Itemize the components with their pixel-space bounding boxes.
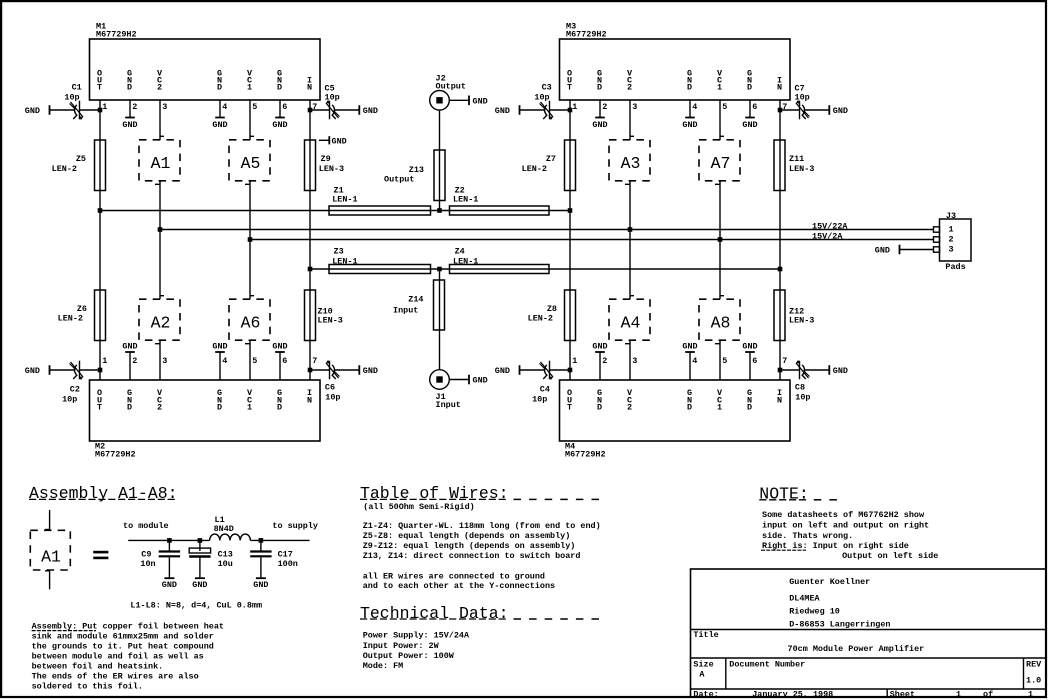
svg-text:GND: GND	[272, 342, 287, 352]
svg-text:Title: Title	[693, 630, 718, 640]
svg-text:T: T	[567, 403, 572, 413]
svg-text:10p: 10p	[325, 393, 340, 403]
svg-text:4: 4	[222, 102, 227, 112]
svg-text:GND: GND	[682, 342, 697, 352]
svg-text:Size: Size	[693, 660, 713, 670]
svg-text:Z4: Z4	[455, 247, 465, 257]
svg-text:L1-L8: N=8, d=4, CuL 0.8mm: L1-L8: N=8, d=4, CuL 0.8mm	[130, 600, 262, 610]
svg-text:Z14: Z14	[408, 295, 423, 305]
svg-text:GND: GND	[473, 96, 488, 106]
svg-text:C6: C6	[325, 382, 335, 392]
svg-text:Z1-Z4: Quarter-WL. 118mm long: Z1-Z4: Quarter-WL. 118mm long (from end …	[363, 521, 601, 531]
svg-text:LEN-1: LEN-1	[453, 257, 478, 267]
svg-text:GND: GND	[833, 366, 848, 376]
svg-text:N: N	[307, 83, 312, 93]
svg-text:REV: REV	[1026, 660, 1042, 670]
svg-text:1: 1	[956, 689, 961, 699]
svg-text:5: 5	[252, 102, 257, 112]
svg-text:D: D	[217, 403, 222, 413]
svg-text:LEN-1: LEN-1	[332, 195, 357, 205]
svg-text:GND: GND	[495, 366, 510, 376]
svg-text:January 25, 1998: January 25, 1998	[752, 689, 833, 699]
svg-text:side. Thats wrong.: side. Thats wrong.	[762, 531, 853, 541]
svg-text:C3: C3	[542, 83, 552, 93]
svg-text:Output on left side: Output on left side	[842, 551, 938, 561]
svg-text:Z11: Z11	[789, 154, 804, 164]
svg-text:D-86853 Langerringen: D-86853 Langerringen	[789, 619, 890, 629]
svg-text:between module and foil as wel: between module and foil as well as	[32, 652, 204, 662]
svg-text:7: 7	[782, 356, 787, 366]
svg-text:Z9: Z9	[321, 154, 331, 164]
svg-text:Z5: Z5	[76, 154, 86, 164]
svg-text:C8: C8	[795, 382, 805, 392]
svg-text:10p: 10p	[534, 93, 549, 103]
svg-text:2: 2	[157, 403, 162, 413]
svg-text:GND: GND	[272, 120, 287, 130]
svg-text:A6: A6	[241, 313, 261, 332]
svg-text:DL4MEA: DL4MEA	[789, 594, 820, 604]
svg-text:1: 1	[717, 403, 722, 413]
svg-text:10p: 10p	[795, 93, 810, 103]
svg-text:Pads: Pads	[945, 262, 965, 272]
svg-text:T: T	[97, 83, 102, 93]
svg-text:Table of Wires:: Table of Wires:	[360, 484, 509, 503]
svg-text:to supply: to supply	[272, 521, 318, 531]
svg-text:1: 1	[1028, 689, 1033, 699]
svg-text:10p: 10p	[325, 93, 340, 103]
svg-text:2: 2	[132, 102, 137, 112]
svg-text:sink and module 61mmx25mm and: sink and module 61mmx25mm and solder	[32, 632, 214, 642]
svg-text:GND: GND	[212, 120, 227, 130]
svg-text:GND: GND	[833, 106, 848, 116]
svg-text:C4: C4	[540, 385, 550, 395]
svg-text:10p: 10p	[532, 395, 547, 405]
svg-text:LEN-3: LEN-3	[789, 164, 814, 174]
svg-text:GND: GND	[122, 342, 137, 352]
svg-text:C2: C2	[70, 385, 80, 395]
svg-text:A4: A4	[621, 313, 641, 332]
svg-text:1: 1	[572, 102, 577, 112]
svg-text:1: 1	[572, 356, 577, 366]
svg-text:Some datasheets of M67762H2 sh: Some datasheets of M67762H2 show	[762, 510, 925, 520]
svg-text:70cm Module Power Amplifier: 70cm Module Power Amplifier	[788, 644, 925, 654]
svg-text:Output Power: 100W: Output Power: 100W	[363, 651, 455, 661]
svg-text:Assembly A1-A8:: Assembly A1-A8:	[29, 484, 178, 503]
svg-text:Date:: Date:	[693, 689, 718, 699]
svg-text:D: D	[217, 83, 222, 93]
svg-text:GND: GND	[592, 342, 607, 352]
svg-text:of: of	[983, 689, 993, 699]
svg-text:3: 3	[949, 245, 954, 255]
svg-text:3: 3	[632, 102, 637, 112]
svg-text:LEN-3: LEN-3	[789, 316, 814, 326]
svg-text:GND: GND	[363, 106, 378, 116]
svg-text:4: 4	[222, 356, 227, 366]
svg-text:A2: A2	[151, 313, 171, 332]
svg-text:8N4D: 8N4D	[214, 524, 234, 534]
svg-text:D: D	[277, 403, 282, 413]
svg-text:GND: GND	[473, 376, 488, 386]
svg-text:GND: GND	[192, 580, 207, 590]
svg-text:NOTE:: NOTE:	[759, 485, 809, 504]
svg-text:10u: 10u	[218, 559, 233, 569]
svg-text:Riedweg 10: Riedweg 10	[789, 607, 840, 617]
svg-text:input on left and output on ri: input on left and output on right	[762, 520, 929, 530]
svg-text:GND: GND	[122, 120, 137, 130]
svg-text:and to each other at the Y-con: and to each other at the Y-connections	[363, 581, 555, 591]
svg-text:GND: GND	[363, 366, 378, 376]
svg-text:10p: 10p	[62, 395, 77, 405]
svg-text:D: D	[597, 403, 602, 413]
svg-text:Z5-Z8: equal length (depends o: Z5-Z8: equal length (depends on assembly…	[363, 531, 571, 541]
svg-text:1: 1	[949, 225, 954, 235]
svg-text:10p: 10p	[64, 93, 79, 103]
svg-text:D: D	[747, 403, 752, 413]
svg-text:D: D	[687, 83, 692, 93]
svg-text:Power Supply: 15V/24A: Power Supply: 15V/24A	[363, 631, 470, 641]
svg-text:5: 5	[252, 356, 257, 366]
svg-text:GND: GND	[742, 120, 757, 130]
svg-text:A8: A8	[711, 313, 731, 332]
svg-text:2: 2	[627, 403, 632, 413]
svg-text:(all 50Ohm Semi-Rigid): (all 50Ohm Semi-Rigid)	[363, 502, 474, 512]
svg-text:Sheet: Sheet	[890, 689, 915, 699]
svg-text:between foil and heatsink.: between foil and heatsink.	[32, 662, 164, 672]
svg-text:GND: GND	[495, 106, 510, 116]
svg-text:A7: A7	[711, 154, 731, 173]
svg-text:1: 1	[247, 83, 252, 93]
svg-text:all ER wires are connected to: all ER wires are connected to ground	[363, 571, 545, 581]
svg-text:1: 1	[102, 102, 107, 112]
svg-text:Z13, Z14: direct connection to: Z13, Z14: direct connection to switch bo…	[363, 551, 581, 561]
svg-text:GND: GND	[875, 246, 890, 256]
svg-text:soldered to this foil.: soldered to this foil.	[32, 681, 143, 691]
svg-text:10p: 10p	[795, 393, 810, 403]
svg-text:1: 1	[247, 403, 252, 413]
svg-text:N: N	[777, 83, 782, 93]
svg-text:GND: GND	[332, 136, 347, 146]
svg-text:D: D	[687, 403, 692, 413]
svg-text:T: T	[97, 403, 102, 413]
svg-text:GND: GND	[682, 120, 697, 130]
svg-text:D: D	[277, 83, 282, 93]
svg-text:2: 2	[627, 83, 632, 93]
svg-text:5: 5	[722, 102, 727, 112]
svg-text:GND: GND	[25, 366, 40, 376]
svg-text:D: D	[747, 83, 752, 93]
svg-text:to module: to module	[123, 521, 169, 531]
svg-text:6: 6	[282, 102, 287, 112]
svg-text:D: D	[597, 83, 602, 93]
svg-text:6: 6	[752, 356, 757, 366]
svg-text:Input: Input	[393, 305, 418, 315]
svg-text:2: 2	[602, 356, 607, 366]
svg-text:GND: GND	[162, 580, 177, 590]
svg-text:6: 6	[752, 102, 757, 112]
svg-text:GND: GND	[592, 120, 607, 130]
svg-text:100n: 100n	[278, 559, 298, 569]
svg-text:LEN-3: LEN-3	[318, 316, 343, 326]
svg-text:Input: Input	[436, 400, 461, 410]
svg-text:15V/22A: 15V/22A	[812, 222, 848, 232]
svg-text:T: T	[567, 83, 572, 93]
svg-text:Document Number: Document Number	[729, 660, 805, 670]
svg-text:A1: A1	[41, 547, 61, 566]
svg-text:15V/2A: 15V/2A	[812, 232, 843, 242]
svg-text:LEN-3: LEN-3	[319, 164, 344, 174]
svg-text:GND: GND	[253, 580, 268, 590]
svg-text:2: 2	[157, 83, 162, 93]
svg-text:M67729H2: M67729H2	[96, 29, 137, 39]
svg-text:M67729H2: M67729H2	[95, 450, 136, 460]
svg-text:Guenter Koellner: Guenter Koellner	[789, 577, 870, 587]
svg-text:5: 5	[722, 356, 727, 366]
svg-text:1: 1	[717, 83, 722, 93]
svg-text:LEN-2: LEN-2	[52, 164, 77, 174]
svg-text:3: 3	[162, 356, 167, 366]
svg-text:Mode: FM: Mode: FM	[363, 661, 404, 671]
svg-text:4: 4	[692, 102, 697, 112]
svg-text:N: N	[777, 395, 782, 405]
svg-text:3: 3	[162, 102, 167, 112]
svg-text:Output: Output	[436, 81, 466, 91]
svg-text:The ends of the ER wires are a: The ends of the ER wires are also	[32, 671, 199, 681]
svg-text:A3: A3	[621, 154, 641, 173]
svg-text:1.0: 1.0	[1026, 676, 1041, 686]
svg-text:Input Power: 2W: Input Power: 2W	[363, 641, 440, 651]
svg-text:2: 2	[602, 102, 607, 112]
svg-text:Output: Output	[384, 174, 414, 184]
svg-text:GND: GND	[742, 342, 757, 352]
svg-text:LEN-1: LEN-1	[332, 257, 357, 267]
svg-text:M67729H2: M67729H2	[565, 450, 606, 460]
svg-text:2: 2	[132, 356, 137, 366]
svg-text:1: 1	[102, 356, 107, 366]
svg-text:A5: A5	[241, 154, 261, 173]
svg-text:LEN-1: LEN-1	[453, 195, 478, 205]
svg-text:7: 7	[312, 356, 317, 366]
svg-text:4: 4	[692, 356, 697, 366]
svg-text:Z7: Z7	[546, 154, 556, 164]
svg-text:C1: C1	[72, 83, 82, 93]
svg-text:3: 3	[632, 356, 637, 366]
svg-text:LEN-2: LEN-2	[528, 313, 553, 323]
svg-text:10n: 10n	[140, 559, 155, 569]
svg-text:Z9-Z12: equal length (depends: Z9-Z12: equal length (depends on assembl…	[363, 541, 576, 551]
svg-text:GND: GND	[212, 342, 227, 352]
svg-text:6: 6	[282, 356, 287, 366]
svg-text:D: D	[127, 403, 132, 413]
svg-text:M67729H2: M67729H2	[566, 29, 607, 39]
svg-text:D: D	[127, 83, 132, 93]
svg-text:GND: GND	[25, 106, 40, 116]
svg-text:A1: A1	[151, 154, 171, 173]
svg-text:J3: J3	[946, 211, 956, 221]
svg-text:2: 2	[949, 235, 954, 245]
svg-text:Z3: Z3	[334, 247, 344, 257]
svg-text:LEN-2: LEN-2	[522, 164, 547, 174]
svg-text:Technical Data:: Technical Data:	[360, 604, 509, 623]
svg-text:LEN-2: LEN-2	[58, 313, 83, 323]
svg-text:N: N	[307, 395, 312, 405]
svg-text:the grounds to it. Put heat co: the grounds to it. Put heat compound	[32, 642, 214, 652]
